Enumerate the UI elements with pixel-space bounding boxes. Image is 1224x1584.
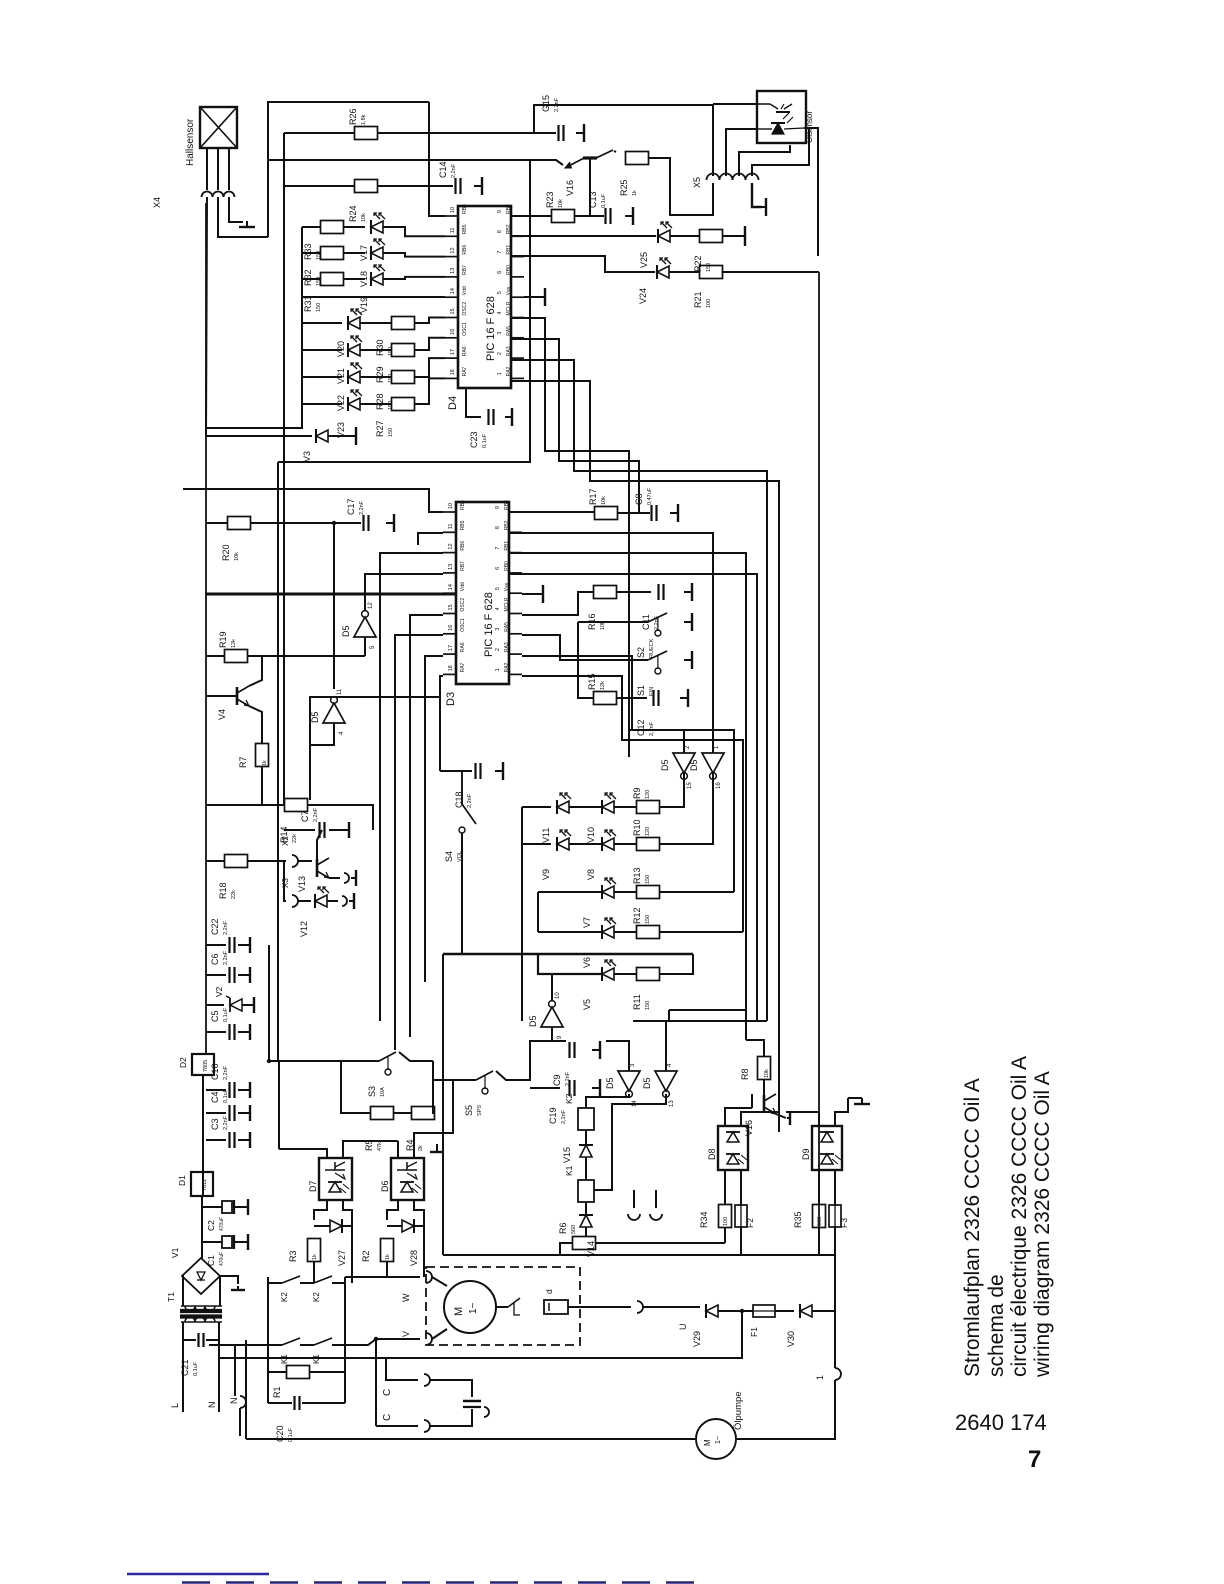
svg-text:MCLR: MCLR	[504, 597, 510, 612]
svg-text:OSC2: OSC2	[460, 598, 466, 612]
wire C top right	[430, 1380, 472, 1397]
svg-text:R34: R34	[699, 1211, 709, 1228]
svg-text:R6: R6	[558, 1222, 568, 1234]
svg-text:Vdd: Vdd	[460, 582, 466, 591]
wire D4 pin5 gnd	[524, 296, 540, 298]
svg-text:12: 12	[450, 247, 456, 253]
wire D3 pin3r to S1	[522, 635, 646, 660]
svg-text:F1: F1	[749, 1327, 759, 1337]
wire R26 to G15	[377, 132, 556, 134]
capacitor C23	[469, 409, 494, 448]
svg-text:R9: R9	[632, 787, 642, 799]
svg-text:R33: R33	[303, 243, 313, 260]
label C a	[382, 1389, 393, 1396]
wire pump right	[736, 1380, 835, 1439]
svg-text:11: 11	[337, 688, 343, 695]
wire S3 to S5	[433, 1061, 474, 1080]
svg-text:circuit électrique 2326 CCCC O: circuit électrique 2326 CCCC Oil A	[1008, 1056, 1031, 1377]
motor M1	[444, 1281, 496, 1333]
wire V12 right	[327, 900, 338, 902]
resistor R26	[348, 108, 378, 139]
capacitor C17	[346, 498, 369, 531]
svg-text:D3: D3	[445, 692, 457, 706]
svg-text:L: L	[170, 1403, 180, 1408]
LED V11	[541, 793, 571, 843]
LED V20	[336, 309, 362, 357]
svg-text:150: 150	[706, 263, 712, 272]
svg-text:150: 150	[645, 915, 651, 924]
svg-text:R21: R21	[693, 291, 703, 308]
inverter gate D5	[689, 745, 724, 789]
svg-text:D2: D2	[178, 1057, 188, 1068]
svg-text:150: 150	[645, 875, 651, 884]
inverter gate D5	[310, 688, 345, 735]
wire V14 down	[585, 1227, 587, 1236]
wire motor return	[219, 1311, 742, 1358]
svg-text:RB4: RB4	[460, 500, 466, 510]
svg-text:12: 12	[448, 543, 454, 549]
svg-text:15: 15	[687, 782, 693, 789]
svg-text:wiring diagram 2326 CCCC Oil: wiring diagram 2326 CCCC Oil A	[1031, 1071, 1054, 1378]
svg-text:5: 5	[495, 587, 501, 590]
resistor R2	[361, 1239, 394, 1263]
resistor R13	[632, 867, 660, 898]
svg-text:RB2: RB2	[506, 224, 512, 234]
wire V4 collector	[249, 656, 262, 686]
connector K2 right	[342, 896, 347, 906]
wire motor int	[496, 1306, 508, 1308]
svg-text:1: 1	[495, 668, 501, 671]
wire LED rows rail	[206, 227, 302, 428]
wire D7 bottom-right	[343, 1200, 352, 1226]
wire C18 left riser	[439, 697, 441, 771]
IC D3 PIC 16 F 628	[443, 500, 522, 706]
svg-text:120: 120	[645, 827, 651, 836]
capacitor C13	[588, 191, 611, 224]
wire D3 pin17l riser	[425, 656, 443, 982]
svg-text:S1: S1	[636, 685, 646, 696]
svg-text:V9: V9	[541, 869, 551, 880]
wire V7 row	[538, 891, 602, 893]
wire x746 ext	[745, 1010, 747, 1040]
svg-text:6: 6	[495, 567, 501, 570]
LED V6	[582, 918, 616, 968]
ground C22	[248, 937, 250, 953]
svg-text:2,2nF: 2,2nF	[223, 950, 229, 965]
svg-text:9: 9	[495, 506, 501, 509]
wire V25 to R22	[670, 235, 700, 237]
svg-text:R3: R3	[288, 1250, 298, 1262]
label 1	[815, 1375, 825, 1380]
switch S1	[636, 651, 667, 696]
optocoupler D9	[801, 1126, 842, 1170]
wire D3 pin4r to S-block	[522, 592, 593, 615]
wire C bottom right	[430, 1409, 472, 1426]
wire R28 to D4	[414, 358, 445, 377]
wire C top feed	[386, 1358, 418, 1380]
wire R26 row	[284, 132, 354, 134]
ground D3 pin5	[538, 585, 543, 603]
wire V2 row	[206, 1004, 224, 1006]
svg-text:R11: R11	[632, 994, 642, 1010]
wire rail to V4	[206, 695, 237, 697]
svg-text:V10: V10	[586, 827, 596, 843]
svg-text:0,47uF: 0,47uF	[647, 487, 653, 505]
diode V29	[692, 1304, 718, 1347]
wire R15 row	[578, 622, 593, 698]
wire h1010 drop	[668, 1010, 670, 1021]
svg-text:C10: C10	[210, 1063, 220, 1080]
svg-text:RB6: RB6	[462, 245, 468, 255]
wire R21 to right bus	[723, 271, 819, 273]
wire V3 row	[206, 435, 312, 437]
svg-text:C13: C13	[588, 191, 598, 208]
wire T1 sec left	[182, 1276, 183, 1306]
wire motor V	[432, 1329, 447, 1339]
svg-text:D9: D9	[801, 1148, 811, 1160]
wire X5 pin1 bottom	[712, 183, 714, 215]
wire gate3 top	[606, 1041, 629, 1071]
oil sensor box	[757, 91, 806, 143]
node R20-C17 junction	[332, 521, 336, 525]
wire D5b bottom	[310, 723, 334, 745]
svg-text:0,1uF: 0,1uF	[223, 1007, 229, 1022]
LED V22	[336, 363, 362, 411]
svg-text:C4: C4	[210, 1091, 220, 1103]
wire row R32	[302, 252, 321, 254]
wire rail D2 bottom	[202, 1075, 204, 1196]
wire C20 left	[268, 1402, 292, 1404]
capacitor C3	[210, 1115, 235, 1148]
wire K1-V14	[585, 1202, 587, 1215]
wire thick branch	[538, 954, 602, 974]
wire V4 emitter to R7	[249, 706, 262, 743]
wire D3 pin9r row	[509, 511, 595, 513]
resistor R30	[375, 317, 415, 357]
title line 2	[985, 1274, 1008, 1377]
wire N2 line	[234, 1345, 236, 1396]
svg-text:C14: C14	[438, 161, 448, 178]
svg-text:3: 3	[495, 628, 501, 631]
svg-text:R25: R25	[619, 179, 629, 196]
wire C3 row	[206, 1139, 226, 1141]
svg-text:2k: 2k	[418, 1145, 424, 1151]
wire R1 row	[268, 1371, 287, 1373]
wire row V23	[302, 403, 342, 405]
svg-text:Vss: Vss	[506, 286, 512, 295]
svg-text:18: 18	[448, 665, 454, 671]
wire C1 row	[202, 1241, 222, 1243]
wire C9 row	[546, 1040, 566, 1042]
svg-text:F2: F2	[745, 1218, 755, 1228]
wire D4 pin8 to V25 row	[511, 235, 656, 237]
wire C3 right	[238, 1139, 248, 1141]
page number	[1028, 1446, 1041, 1473]
transistor V13	[297, 858, 329, 892]
wire C20 right	[302, 1402, 345, 1404]
switch S4	[444, 771, 476, 862]
svg-text:Vss: Vss	[504, 582, 510, 591]
svg-text:N: N	[207, 1402, 217, 1409]
svg-text:V19: V19	[359, 297, 369, 313]
wire D3 pin5r gnd	[522, 593, 538, 595]
inverter gate D5	[642, 1063, 677, 1107]
wire V28 right down	[423, 1226, 425, 1277]
wire V16 to R25	[614, 151, 616, 152]
wire T1 prim right	[218, 1322, 220, 1412]
wire R20 row	[206, 522, 228, 524]
oil sensor phototransistor	[757, 104, 792, 112]
wire V16 base down	[589, 158, 591, 216]
motor dashed box	[426, 1267, 580, 1345]
hook C1	[424, 1374, 430, 1386]
footer blue line	[127, 1573, 269, 1576]
hook C small	[484, 1407, 489, 1417]
svg-text:V15: V15	[562, 1147, 572, 1163]
wire D7 top-right	[343, 1141, 398, 1158]
svg-text:R29: R29	[375, 366, 385, 383]
wire X2 to V13	[298, 860, 312, 862]
svg-text:RB5: RB5	[460, 520, 466, 530]
resistor R23	[545, 191, 575, 222]
svg-text:Ölsensor: Ölsensor	[805, 111, 814, 143]
title line 4	[1031, 1071, 1054, 1378]
wire hook a stem	[633, 1190, 635, 1208]
wire D3 pin1r down	[522, 676, 743, 932]
svg-text:3: 3	[497, 332, 503, 335]
optocoupler D7	[308, 1158, 352, 1200]
wire C4 right	[238, 1112, 248, 1114]
wire C4 row	[206, 1112, 226, 1114]
resistor R15	[587, 673, 617, 704]
hook a	[628, 1214, 640, 1220]
svg-text:16: 16	[716, 782, 722, 789]
svg-text:D5: D5	[528, 1015, 538, 1027]
resistor R16	[587, 586, 617, 631]
resistor R11	[632, 968, 660, 1011]
wire X5 pin2 up	[726, 129, 757, 176]
optocoupler D6	[380, 1158, 424, 1200]
inverter gate D5	[660, 745, 695, 789]
svg-text:schema de: schema de	[985, 1274, 1008, 1377]
wire h1010	[669, 1009, 746, 1011]
wire R1 right	[310, 1371, 345, 1373]
wire D3 pin8r long	[509, 533, 713, 753]
wire V1 right gnd	[220, 1276, 238, 1284]
connector X5 bump 2	[720, 174, 733, 181]
wire hook1 up	[834, 1311, 836, 1368]
wire R31 to V19	[343, 278, 365, 280]
svg-text:2,2nF: 2,2nF	[451, 163, 457, 178]
wire V30 right	[812, 1310, 835, 1312]
title line 1	[961, 1078, 984, 1377]
terminal hook N2	[240, 1396, 246, 1408]
svg-text:RA2: RA2	[506, 366, 512, 376]
wire D1 down	[201, 1196, 203, 1258]
svg-text:F3: F3	[839, 1218, 849, 1228]
connector X5 label	[692, 177, 702, 188]
svg-text:2,2nF: 2,2nF	[223, 920, 229, 935]
inverter gate D5	[528, 992, 563, 1039]
svg-text:V7: V7	[582, 917, 592, 928]
ground C6	[248, 967, 250, 983]
switch S2	[636, 613, 667, 658]
wire bottom long h	[443, 1254, 835, 1256]
capacitor C20	[275, 1396, 300, 1442]
svg-text:10k: 10k	[558, 199, 564, 208]
resistor R14	[279, 799, 308, 844]
svg-text:R28: R28	[375, 393, 385, 410]
svg-text:V30: V30	[786, 1331, 796, 1347]
wire V9-V8	[569, 843, 602, 845]
wire R17 to C8	[618, 512, 650, 514]
svg-text:10: 10	[555, 992, 561, 999]
wire R18 to X2	[248, 860, 286, 862]
hook b	[650, 1214, 662, 1220]
svg-text:D5: D5	[689, 759, 699, 771]
wire R33 to V17	[343, 226, 365, 228]
wire row R33	[302, 226, 321, 228]
wire row V20	[302, 322, 342, 324]
wire D4 pin9 row	[511, 215, 551, 217]
fuse F2	[735, 1205, 755, 1228]
motor switch	[508, 1298, 520, 1315]
svg-text:470uF: 470uF	[219, 1252, 225, 1266]
ground C7	[345, 822, 349, 838]
svg-text:14: 14	[448, 584, 454, 590]
wire V27 right down	[351, 1226, 353, 1283]
connector X5 bump 4	[746, 174, 759, 181]
wire D7 top-left	[279, 1149, 327, 1158]
wire C bottom left	[376, 1425, 418, 1427]
svg-text:OSC1: OSC1	[462, 322, 468, 336]
svg-text:5: 5	[497, 291, 503, 294]
terminal L label	[170, 1403, 180, 1408]
svg-text:C: C	[382, 1389, 393, 1396]
transistor V4	[217, 686, 249, 720]
svg-text:150: 150	[645, 1001, 651, 1010]
wire V15-K1	[585, 1157, 587, 1180]
svg-text:RA7: RA7	[462, 366, 468, 376]
wire D8 top	[725, 1108, 752, 1126]
svg-text:C: C	[382, 1414, 393, 1421]
wire D6 top-left	[397, 1141, 399, 1158]
switch S3	[367, 1052, 396, 1097]
svg-text:V4: V4	[217, 709, 227, 720]
svg-text:V27: V27	[337, 1250, 347, 1266]
svg-text:R13: R13	[632, 867, 642, 884]
ground V16b	[787, 1111, 790, 1125]
wire V19 to D4	[383, 277, 445, 279]
svg-text:V11: V11	[541, 828, 551, 843]
svg-text:RA3: RA3	[506, 346, 512, 356]
transistor V16	[744, 1094, 776, 1136]
svg-text:R26: R26	[348, 108, 358, 125]
wire C2 right	[235, 1206, 246, 1208]
connector X4 bump 3	[224, 192, 235, 197]
resistor R12	[632, 907, 660, 938]
svg-text:V2: V2	[214, 986, 224, 997]
resistor R10	[632, 819, 660, 850]
terminal N1 label	[207, 1402, 217, 1409]
bridge rectifier V1	[170, 1247, 220, 1294]
svg-text:C5: C5	[210, 1010, 220, 1022]
wire S2 row	[578, 621, 646, 623]
svg-text:12: 12	[368, 602, 374, 609]
ground C4	[248, 1105, 250, 1121]
svg-text:RA3: RA3	[504, 642, 510, 652]
svg-text:8: 8	[497, 230, 503, 233]
connector X3	[292, 895, 298, 907]
wire K1 row left	[209, 1344, 282, 1346]
wire C10 row	[206, 1089, 226, 1091]
wire R13 up	[660, 891, 734, 893]
wire D3 pin18l riser	[310, 676, 443, 745]
relay contact K1b	[312, 1338, 332, 1364]
capacitor C7	[300, 807, 325, 838]
svg-text:R19: R19	[218, 631, 228, 648]
wire X3 to V12	[298, 900, 311, 902]
wire C7 row	[284, 829, 315, 831]
svg-text:12k: 12k	[600, 681, 606, 690]
svg-text:X4: X4	[152, 197, 162, 208]
svg-text:2,2nF: 2,2nF	[313, 807, 319, 822]
wire K1 right	[332, 1339, 420, 1345]
node V branch	[374, 1337, 378, 1341]
terminal N2 label	[229, 1398, 239, 1405]
wire T1 prim left	[182, 1322, 184, 1412]
svg-text:150: 150	[316, 303, 322, 312]
wire V8-R10	[614, 843, 637, 845]
svg-text:10k: 10k	[764, 1069, 770, 1078]
wire R18 row	[206, 860, 225, 862]
svg-text:4: 4	[495, 607, 501, 610]
svg-text:K2: K2	[280, 1292, 289, 1302]
wire V27 row	[314, 1225, 330, 1227]
wire D4 pin1 down	[511, 381, 779, 1132]
svg-text:R32: R32	[303, 269, 313, 286]
wire D4 pin4 down	[511, 318, 629, 757]
svg-text:1k: 1k	[385, 1254, 391, 1260]
svg-text:V25: V25	[639, 252, 649, 268]
ground C3	[248, 1132, 250, 1148]
svg-text:V20: V20	[336, 341, 346, 357]
svg-text:K1: K1	[564, 1165, 574, 1176]
LED V19	[359, 265, 385, 313]
svg-text:C17: C17	[346, 498, 356, 515]
wire R5R4 bypass left	[341, 1061, 371, 1113]
svg-text:2: 2	[495, 648, 501, 651]
title line 3	[1008, 1056, 1031, 1377]
wire V9 row	[522, 843, 551, 845]
svg-text:G15: G15	[541, 95, 551, 112]
svg-text:R30: R30	[375, 339, 385, 356]
svg-text:R23: R23	[545, 191, 555, 208]
svg-text:1k: 1k	[312, 1254, 318, 1260]
ground C23	[505, 408, 512, 426]
svg-text:RB4: RB4	[462, 204, 468, 214]
wire hook b stem	[655, 1190, 657, 1208]
wire R30 to D4	[414, 318, 445, 324]
svg-text:Vdd: Vdd	[462, 286, 468, 295]
wire bottom left riser	[245, 1340, 247, 1439]
svg-text:C19: C19	[548, 1107, 558, 1124]
node rail S3	[267, 1059, 271, 1063]
wire D3 pin2r down	[522, 656, 734, 892]
relay coil K2	[564, 1093, 594, 1130]
svg-text:10k: 10k	[601, 496, 607, 505]
wire D9 top pin2	[786, 1112, 819, 1126]
